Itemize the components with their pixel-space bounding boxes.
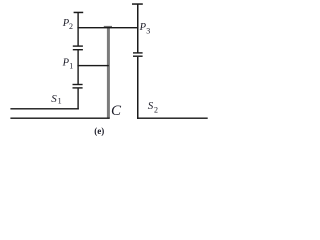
capacitor between P2 and P1 nodes: bottom plate <box>73 49 83 50</box>
gray shaft: thick line from main line down to node C corner <box>107 28 110 118</box>
svg-text:(e): (e) <box>94 126 104 136</box>
svg-text:3: 3 <box>146 27 150 36</box>
terminal cap bar at top of P2 branch <box>74 12 84 14</box>
wire: S2 horizontal line <box>137 118 208 119</box>
svg-text:1: 1 <box>58 96 62 105</box>
svg-text:S: S <box>148 100 154 112</box>
svg-text:2: 2 <box>154 105 158 114</box>
wire: C bottom horizontal line <box>10 118 109 119</box>
capacitor below P3 node: top plate <box>133 52 143 53</box>
gray junction bar on main P2-P3 line (node C tap) <box>104 26 112 28</box>
wire: stem from capacitor down to S2 line corner <box>137 57 139 119</box>
label S1 <box>51 93 61 106</box>
capacitor below P3 node: bottom plate <box>133 56 143 57</box>
capacitor above S1 line: bottom plate <box>73 87 83 88</box>
terminal cap bar at top of P3 branch <box>132 3 143 5</box>
capacitor above S1 line: top plate <box>73 84 83 85</box>
label S2 <box>148 100 158 114</box>
wire: P1 node horizontal line to gray shaft <box>77 65 108 66</box>
wire: P3 branch stem (cap bar through P3 node to capacitor) <box>137 4 139 53</box>
wire: S1 horizontal line <box>10 108 78 109</box>
svg-text:C: C <box>111 103 122 119</box>
wire: stem from capacitor down to P1 node and on to S1 capacitor <box>77 50 78 85</box>
label P3 <box>139 22 151 36</box>
svg-text:2: 2 <box>69 22 73 31</box>
svg-text:1: 1 <box>69 61 73 70</box>
capacitor between P2 and P1 nodes: top plate <box>73 45 83 46</box>
svg-text:S: S <box>51 93 57 105</box>
label P2 <box>62 18 73 31</box>
wire: P2 branch stem (cap bar down to capacitor below P2 node) <box>77 12 78 46</box>
label P1 <box>62 57 74 70</box>
wire: stem from S1 capacitor down to S1 line <box>77 88 78 109</box>
wire: main horizontal line from P2 node to P3 node <box>77 27 138 28</box>
